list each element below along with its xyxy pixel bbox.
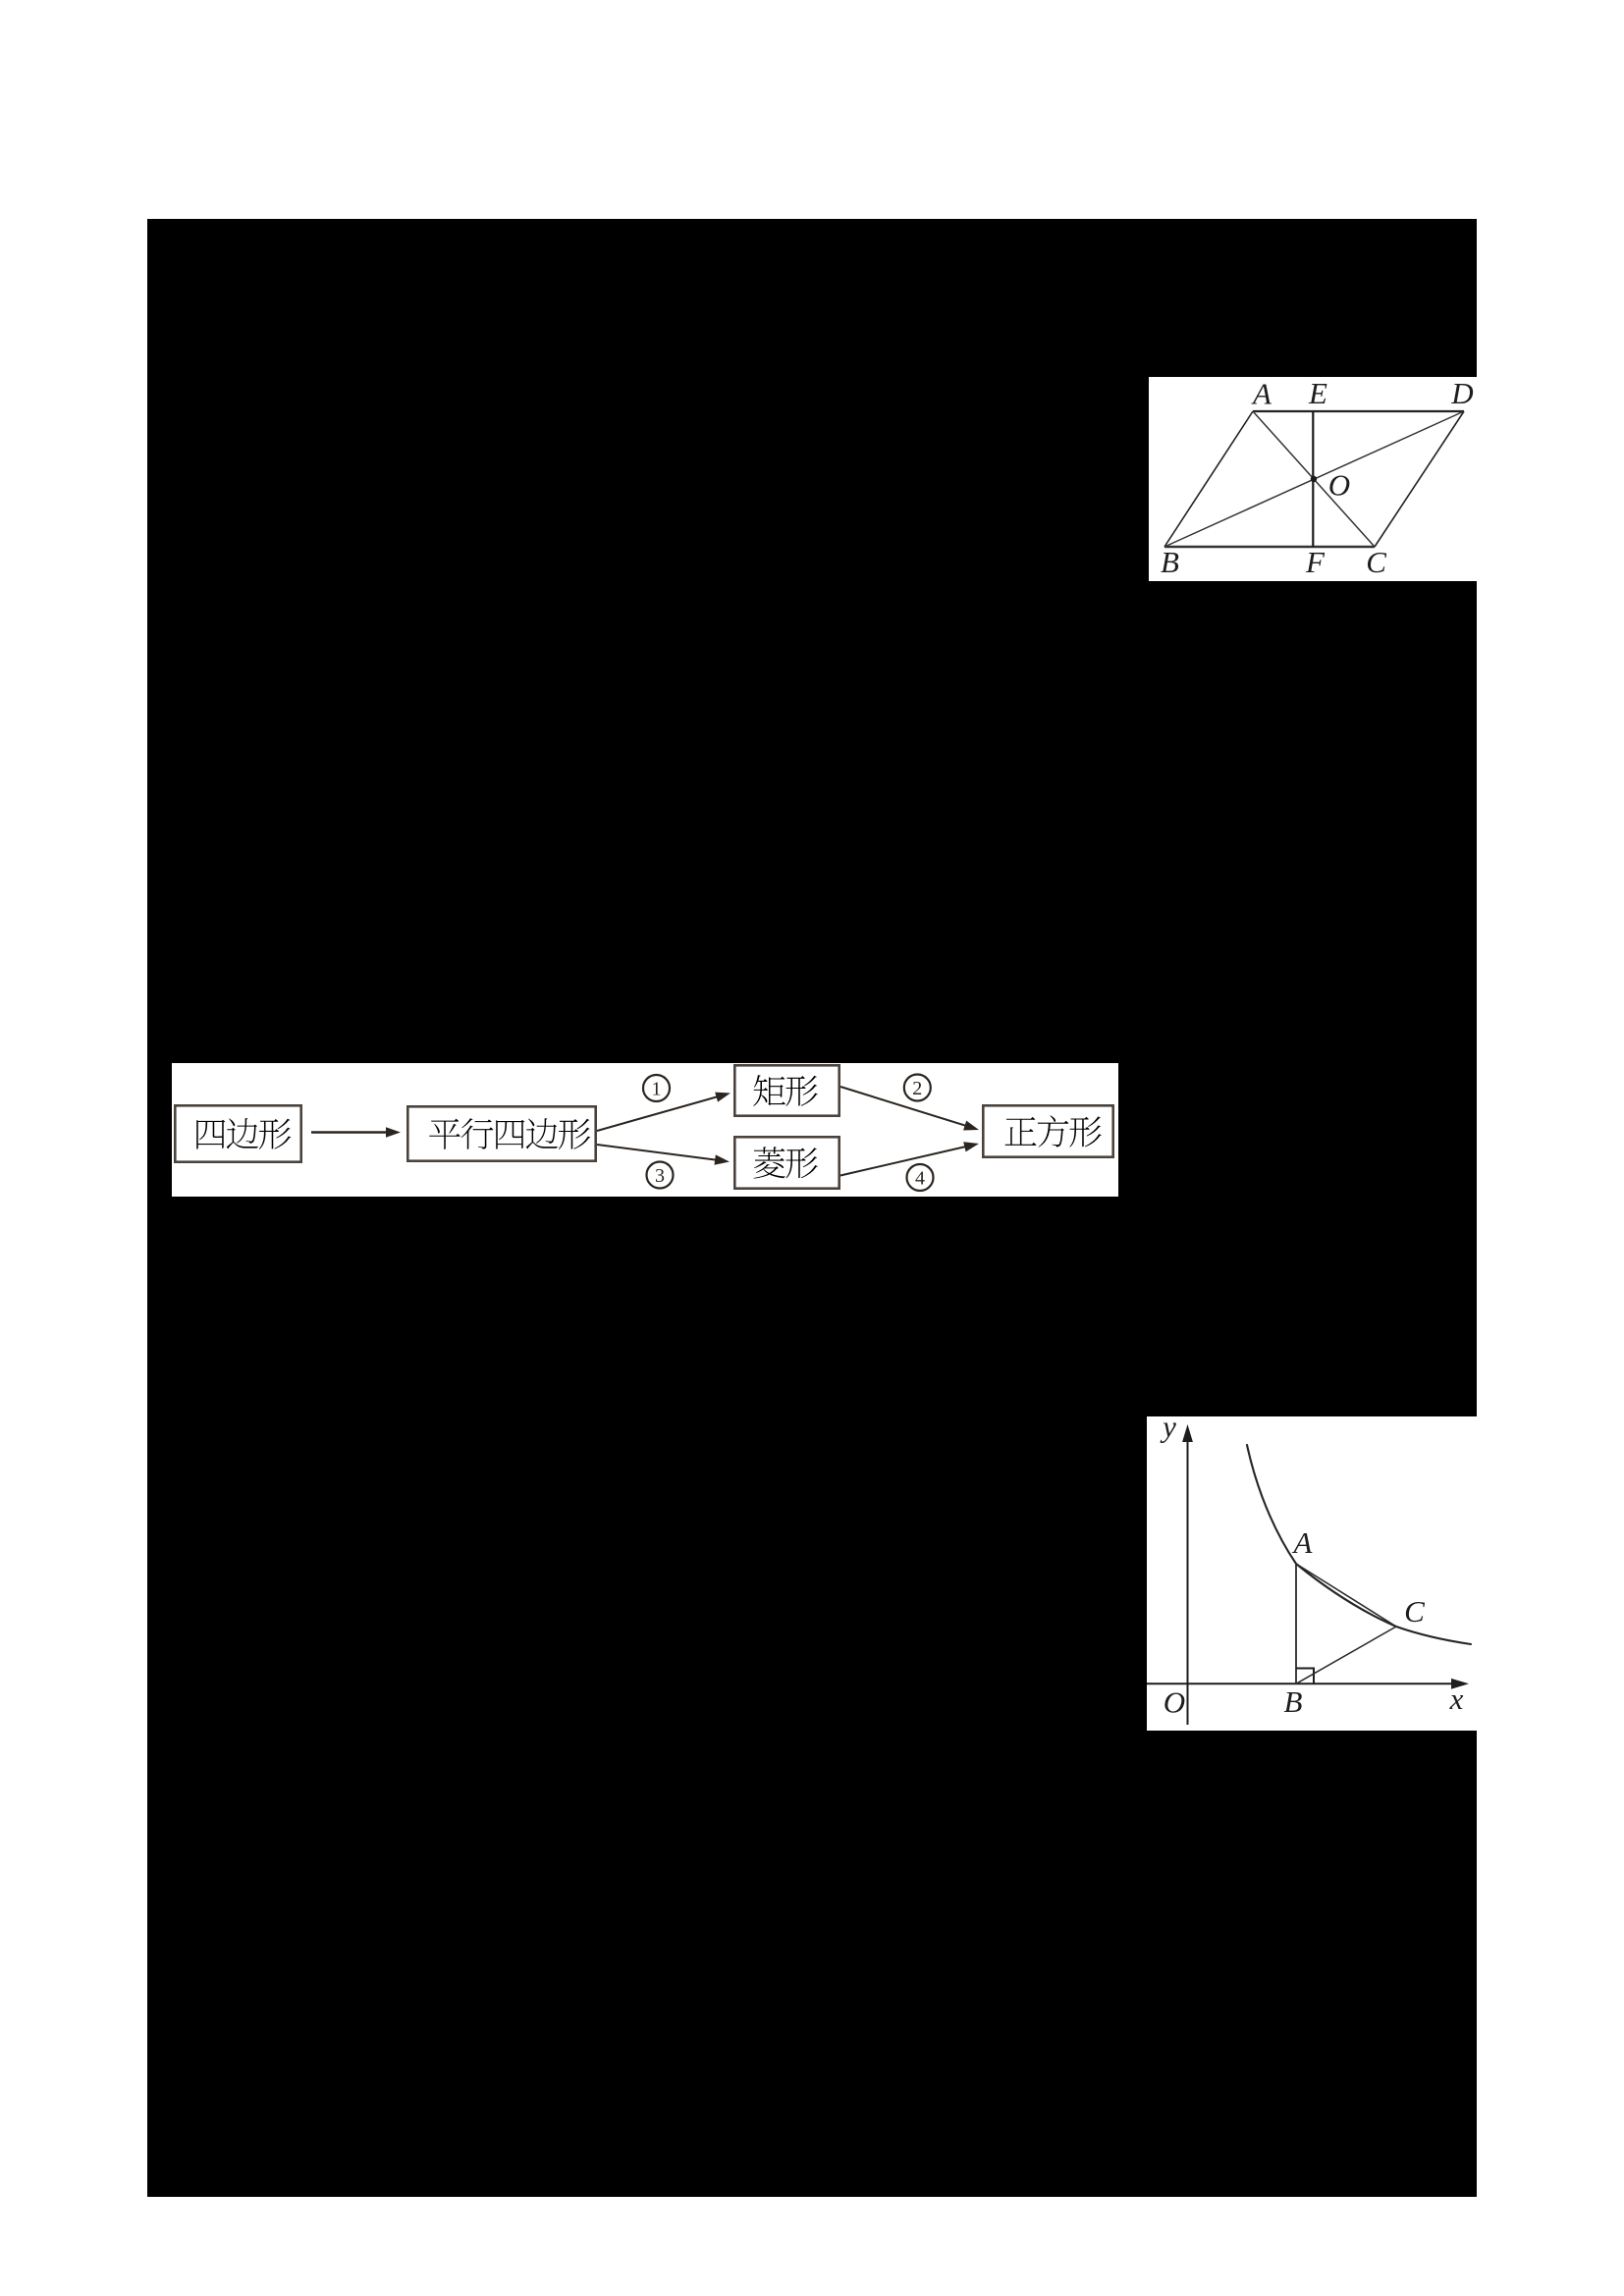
segment BC: [1296, 1627, 1396, 1683]
circled 1: [643, 1075, 670, 1101]
x-axis: [1147, 1682, 1453, 1684]
svg-text:D: D: [1450, 377, 1473, 410]
svg-text:y: y: [1160, 1416, 1176, 1443]
circled 2: [904, 1075, 931, 1101]
panel: quadrilateral flowchart: [172, 1063, 1118, 1197]
svg-text:3: 3: [655, 1165, 665, 1187]
panel: hyperbola coordinate graph: [1147, 1416, 1477, 1731]
segment AB: [1295, 1564, 1297, 1683]
box 平行四边形: [407, 1106, 595, 1160]
box 四边形: [175, 1105, 300, 1161]
svg-text:O: O: [1164, 1684, 1185, 1719]
box 菱形: [734, 1137, 839, 1188]
right angle at B: [1296, 1669, 1314, 1684]
panel: parallelogram figure: [1149, 377, 1477, 581]
svg-text:C: C: [1366, 545, 1386, 579]
redacted text block: [147, 219, 1477, 2197]
arrow 1: 平行四边形 to 矩形: [597, 1096, 719, 1131]
y-axis: [1187, 1440, 1189, 1725]
side AD: [1253, 410, 1464, 412]
svg-text:A: A: [1251, 377, 1272, 410]
node O dot: [1311, 476, 1317, 482]
chord AC: [1296, 1564, 1396, 1627]
svg-text:1: 1: [652, 1078, 662, 1099]
svg-text:B: B: [1161, 545, 1179, 579]
side DC: [1375, 411, 1464, 547]
side BC: [1164, 546, 1375, 549]
svg-text:2: 2: [912, 1078, 922, 1099]
arrow 3: 平行四边形 to 菱形: [597, 1145, 717, 1160]
svg-text:4: 4: [915, 1167, 925, 1189]
diagonal BD: [1164, 411, 1464, 547]
svg-text:O: O: [1328, 467, 1350, 502]
diagonal AC: [1253, 411, 1375, 547]
arrow 四边形 to 平行四边形: [311, 1131, 388, 1133]
circled 3: [647, 1162, 674, 1189]
svg-text:F: F: [1305, 545, 1326, 579]
box 正方形: [983, 1105, 1112, 1156]
box 矩形: [734, 1065, 839, 1115]
svg-text:A: A: [1292, 1525, 1314, 1560]
svg-text:E: E: [1308, 377, 1327, 410]
svg-text:C: C: [1404, 1594, 1425, 1629]
hyperbola curve: [1247, 1445, 1471, 1644]
segment EF: [1312, 411, 1314, 547]
side AB: [1164, 411, 1253, 547]
circled 4: [907, 1164, 934, 1191]
svg-text:B: B: [1284, 1684, 1303, 1719]
svg-text:x: x: [1449, 1682, 1464, 1716]
arrow 2: 矩形 to 正方形: [840, 1087, 967, 1126]
arrow 4: 菱形 to 正方形: [840, 1147, 966, 1176]
